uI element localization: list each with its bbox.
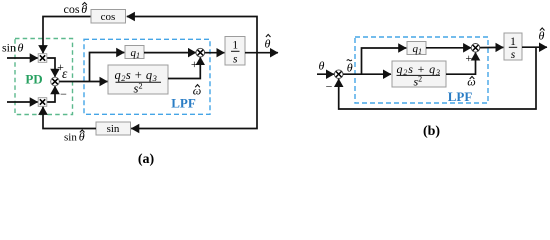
- summing node n5: [334, 70, 343, 79]
- wire: q1 to summing node n6: [426, 47, 471, 49]
- svg-text:s: s: [233, 54, 238, 66]
- wire: n3 to summing node n2: [47, 86, 55, 102]
- svg-text:θ: θ: [18, 41, 24, 55]
- svg-text:1: 1: [510, 36, 516, 48]
- svg-text:θ: θ: [265, 37, 271, 51]
- wire: output theta-hat (b): [522, 46, 547, 48]
- svg-text:+: +: [191, 57, 198, 71]
- svg-text:PD: PD: [25, 72, 42, 87]
- q1 block (a): [125, 46, 144, 59]
- wire: n1 to summing node n2: [47, 58, 55, 77]
- cos block: [91, 10, 126, 24]
- sin block: [96, 122, 131, 135]
- svg-text:ε: ε: [62, 66, 68, 81]
- svg-text:sin: sin: [64, 132, 77, 144]
- svg-text:sin: sin: [107, 123, 120, 135]
- svg-text:s: s: [511, 49, 516, 61]
- svg-text:+: +: [465, 51, 472, 65]
- LPF dashed box (a): [84, 39, 210, 114]
- multiplier n1: [38, 54, 47, 63]
- wire: top feedback from output junction to cos block: [127, 17, 257, 53]
- wire: input 2: [7, 101, 38, 103]
- svg-text:θ: θ: [347, 61, 353, 75]
- q2s+q3 over s^2 block (a): [108, 65, 168, 94]
- wire: feedback loop (b): [339, 47, 536, 109]
- svg-text:sin: sin: [2, 41, 16, 55]
- wire: input 1: [7, 57, 38, 59]
- wire: sin block output up into n3: [43, 107, 96, 129]
- wire: q2s+q3 block output up into n4: [168, 57, 200, 78]
- summing node n6: [471, 44, 480, 53]
- wire: n6 to 1/s block (b): [480, 46, 504, 48]
- svg-text:cos: cos: [101, 11, 116, 23]
- wire: n5 to q2s+q3 block (b): [343, 73, 391, 75]
- svg-text:−: −: [60, 87, 67, 101]
- wire: epsilon to q2s+q3 block: [59, 81, 107, 83]
- svg-text:cos: cos: [64, 2, 80, 16]
- q1 block (b): [407, 42, 426, 55]
- wire: branch up to q1 (b): [362, 48, 407, 74]
- svg-text:−: −: [326, 80, 333, 94]
- wire: n4 to 1/s block: [205, 52, 225, 54]
- wire: q2s+q3 output up into n6: [446, 52, 476, 74]
- svg-text:θ: θ: [319, 59, 325, 73]
- wire: q1 to summing node n4: [144, 52, 196, 54]
- LPF dashed box (b): [355, 37, 488, 103]
- svg-text:1: 1: [232, 40, 238, 52]
- svg-text:(b): (b): [423, 124, 440, 139]
- wire: output theta-hat (a): [245, 52, 278, 54]
- svg-text:LPF: LPF: [171, 96, 196, 111]
- PD dashed box: [15, 39, 73, 115]
- wire: branch up to q1 block: [90, 53, 125, 82]
- wire: cos block output down to multiplier n1: [43, 17, 91, 54]
- 1/s integrator block (b): [504, 33, 522, 60]
- summing node n2: [51, 77, 60, 86]
- svg-text:LPF: LPF: [448, 89, 473, 104]
- 1/s integrator block (a): [225, 37, 245, 66]
- svg-text:(a): (a): [138, 152, 155, 167]
- summing node n4: [196, 48, 205, 57]
- q2s+q3 over s^2 block (b): [392, 61, 446, 87]
- wire: input (b): [317, 73, 334, 75]
- multiplier n3: [38, 98, 47, 107]
- wire: bottom feedback to sin block: [131, 53, 257, 129]
- svg-text:θ: θ: [539, 29, 545, 43]
